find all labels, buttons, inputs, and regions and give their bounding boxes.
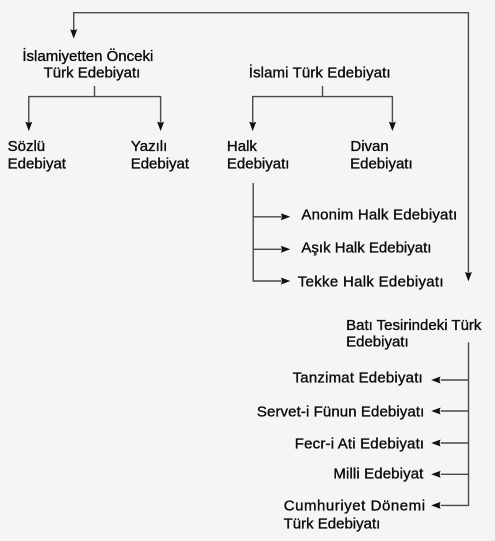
arrowhead left Servet [431, 408, 440, 415]
node Divan Edebiyati [350, 138, 413, 172]
svg-text:Sözlü: Sözlü [8, 138, 46, 155]
svg-text:Edebiyatı: Edebiyatı [227, 155, 290, 172]
arrowhead down to Yazili [157, 122, 164, 131]
arrowhead down right rail [465, 272, 472, 281]
svg-text:Halk: Halk [227, 138, 258, 155]
svg-text:Servet-i Fünun Edebiyatı: Servet-i Fünun Edebiyatı [257, 403, 425, 420]
svg-text:Divan: Divan [350, 138, 388, 155]
lower right rail [441, 342, 469, 505]
connector under Islami block [253, 86, 393, 122]
svg-text:Edebiyatı: Edebiyatı [350, 155, 413, 172]
arrowhead left Milli [431, 471, 440, 478]
arrowhead down to Halk [249, 122, 256, 131]
svg-text:Batı Tesirindeki Türk: Batı Tesirindeki Türk [346, 317, 482, 334]
svg-text:İslamiyetten Önceki: İslamiyetten Önceki [22, 47, 153, 65]
arrowhead left Tanzimat [431, 377, 440, 384]
arrowhead right Asik [281, 246, 290, 253]
svg-text:Edebiyatı: Edebiyatı [346, 333, 409, 350]
svg-text:Türk Edebiyatı: Türk Edebiyatı [284, 515, 381, 532]
svg-text:Tekke Halk Edebiyatı: Tekke Halk Edebiyatı [298, 273, 444, 290]
svg-text:İslami Türk Edebiyatı: İslami Türk Edebiyatı [249, 63, 391, 81]
node Yazili Edebiyat [131, 138, 190, 172]
svg-text:Cumhuriyet Dönemi: Cumhuriyet Dönemi [284, 497, 426, 514]
arrowhead down to Divan [389, 122, 396, 131]
node Bati Tesirindeki Turk Edebiyati [346, 317, 482, 350]
svg-text:Anonim Halk Edebiyatı: Anonim Halk Edebiyatı [301, 207, 457, 224]
top connector line [74, 13, 469, 273]
connector under Islamiyetten block [29, 86, 161, 122]
svg-text:Tanzimat Edebiyatı: Tanzimat Edebiyatı [293, 369, 423, 386]
arrowhead right Anonim [281, 213, 290, 220]
arrowhead left Fecr [431, 440, 440, 447]
svg-text:Milli Edebiyat: Milli Edebiyat [333, 465, 424, 482]
arrowhead right Tekke [281, 278, 290, 285]
svg-text:Türk Edebiyatı: Türk Edebiyatı [44, 64, 141, 81]
arrowhead left Cumhuriyet [431, 502, 440, 509]
Halk subtree rail [253, 183, 281, 281]
node Islamiyetten Onceki Turk Edebiyati [22, 47, 153, 81]
svg-text:Aşık Halk Edebiyatı: Aşık Halk Edebiyatı [301, 240, 431, 257]
svg-text:Edebiyat: Edebiyat [131, 155, 190, 172]
arrowhead down to Sozlu [25, 122, 32, 131]
svg-text:Edebiyat: Edebiyat [8, 155, 67, 172]
arrowhead down to Islamiyetten [70, 29, 77, 38]
node Halk Edebiyati [227, 138, 290, 172]
node Cumhuriyet Donemi Turk Edebiyati [284, 497, 426, 532]
node Sozlu Edebiyat [8, 138, 67, 172]
svg-text:Fecr-i Ati Edebiyatı: Fecr-i Ati Edebiyatı [295, 435, 424, 452]
svg-text:Yazılı: Yazılı [131, 138, 167, 155]
